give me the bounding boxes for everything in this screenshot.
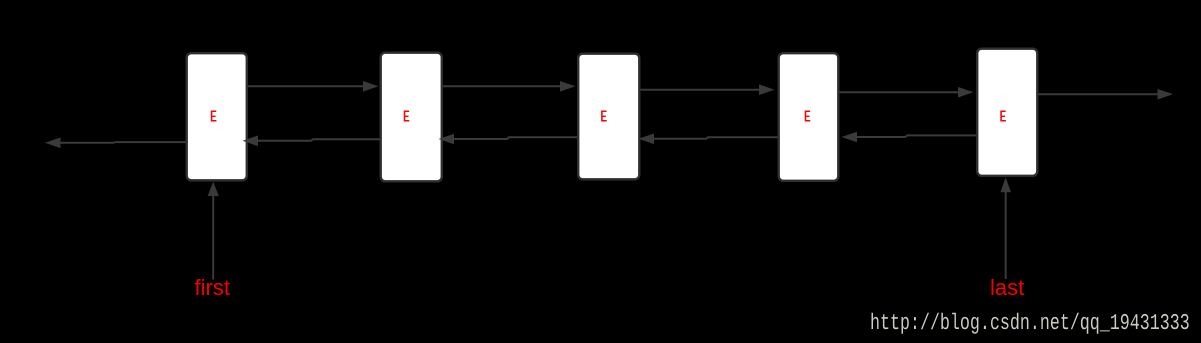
node box 1: [187, 53, 247, 180]
forward arrow node4 to node5: [840, 87, 974, 98]
svg-text:first: first: [195, 275, 230, 300]
forward arrow node2 to node3: [443, 81, 576, 92]
backward arrow node5 to node4: [842, 132, 977, 143]
last pointer arrow: [1000, 177, 1011, 279]
backward arrow node2 to node1: [243, 136, 380, 147]
node box 5: [977, 49, 1037, 176]
svg-text:last: last: [990, 275, 1024, 300]
label E node 2: [404, 111, 410, 122]
label E node 1: [211, 111, 217, 122]
forward exit arrow from node5: [1039, 89, 1174, 100]
label E node 5: [1000, 111, 1006, 122]
node box 4: [779, 53, 839, 181]
backward exit arrow from node1: [45, 138, 186, 149]
forward arrow node3 to node4: [641, 84, 775, 95]
label E node 4: [805, 111, 811, 122]
watermark url: [872, 313, 1189, 334]
node box 2: [381, 53, 442, 182]
backward arrow node4 to node3: [639, 134, 778, 145]
label E node 3: [601, 111, 607, 122]
node box 3: [578, 54, 639, 180]
forward arrow node1 to node2: [248, 81, 379, 92]
backward arrow node3 to node2: [439, 134, 578, 145]
first pointer arrow: [208, 182, 219, 280]
